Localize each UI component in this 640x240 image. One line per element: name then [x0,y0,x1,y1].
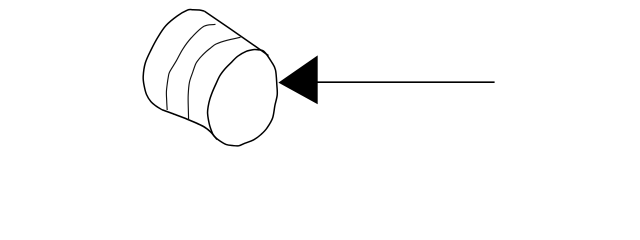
cylinder body: top silhouette tangent line [205,11,269,55]
cylinder body: back cap silhouette [143,9,204,109]
groove arc 1 [166,24,215,110]
arrow head [278,55,317,104]
cylinder front face outline [208,49,278,145]
cylinder body: bottom silhouette tangent [162,110,217,140]
groove arc 2 [188,37,240,120]
leader line [318,81,495,83]
